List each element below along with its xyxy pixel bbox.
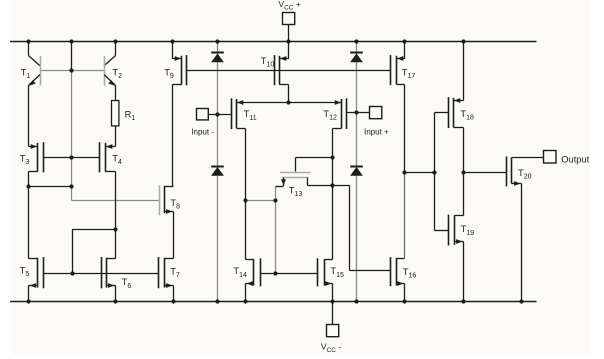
wire T14 source to rail — [245, 284, 247, 302]
svg-text:Input +: Input + — [364, 128, 389, 137]
transistor T14 — [233, 258, 260, 286]
transistor T16 — [391, 257, 417, 286]
junction (71.5,70.5) — [69, 68, 73, 72]
diode D4 — [350, 167, 363, 176]
wire T9 source to T8 drain — [172, 85, 174, 187]
transistor T17 — [391, 42, 416, 86]
transistor T3 — [20, 142, 72, 172]
transistor T13 — [276, 158, 333, 199]
junction (288.5,102.5) — [286, 100, 290, 104]
svg-text:Output: Output — [561, 154, 589, 164]
wire T4 source down — [115, 172, 117, 230]
wire T16 gate route — [333, 186, 391, 271]
junction bottom rail x=173.5 — [171, 299, 175, 303]
wire T16 source to rail — [404, 284, 406, 302]
wire T13 source to T14/T15 gate (gray) — [275, 187, 277, 274]
wire T5 source to rail — [28, 286, 30, 302]
terminal Input+ — [347, 107, 390, 137]
terminal VCC- — [321, 302, 341, 354]
transistor T6 — [102, 257, 132, 290]
transistor T1 — [21, 42, 41, 147]
junction (332.5,157.5) — [330, 155, 334, 159]
wire T3 drain to gray net — [29, 172, 72, 187]
wire left diode string (gray) — [217, 42, 219, 302]
junction top rail x=217.5 — [215, 39, 219, 43]
junction (434.5,172.5) — [432, 170, 436, 174]
wire T11 source to T13 source (gray) — [246, 200, 276, 202]
junction top rail x=172.5 — [170, 39, 174, 43]
transistor T19 — [435, 215, 475, 246]
junction (71.5,157.5) — [69, 155, 73, 159]
wire T5-T7 gate line — [44, 273, 159, 275]
junction bottom rail x=463.5 — [461, 299, 465, 303]
wire T1-T2 base net (gray) — [41, 70, 105, 72]
junction (72.0,273.5) — [70, 271, 74, 275]
junction bottom rail x=28.5 — [26, 299, 30, 303]
wire diff drain bus — [237, 102, 342, 104]
junction (404.5,172.5) — [402, 170, 406, 174]
terminal VCC+ — [278, 0, 300, 41]
terminal Output — [512, 151, 590, 165]
junction top rail x=71.5 — [69, 39, 73, 43]
wire T6 drain up — [115, 230, 117, 259]
wire T7 source to rail — [173, 286, 175, 302]
junction top rail x=463.5 — [461, 39, 465, 43]
diode D2 — [211, 167, 224, 176]
svg-text:Input -: Input - — [191, 128, 214, 137]
junction top rail x=288.5 — [286, 39, 290, 43]
transistor T20 — [507, 157, 532, 187]
junction bottom rail x=404.5 — [402, 299, 406, 303]
wire T4 source to T5 gate line — [72, 230, 116, 274]
junction (275.5,273.5) — [273, 271, 277, 275]
wire T12 source down — [332, 129, 334, 260]
wire T15 source to rail — [332, 284, 334, 302]
transistor T15 — [318, 258, 345, 286]
transistor T11 — [232, 98, 257, 129]
wire T17 source to bias node — [404, 85, 406, 173]
junction bottom rail x=356.5 — [354, 299, 358, 303]
junction bottom rail x=115.5 — [113, 299, 117, 303]
terminal Input- — [191, 109, 231, 137]
wire VCC- bottom rail — [10, 301, 537, 303]
junction bottom rail x=332.5 — [330, 299, 334, 303]
junction top rail x=404.5 — [402, 39, 406, 43]
junction top rail x=115.5 — [113, 39, 117, 43]
wire T18/T19 gate drop — [434, 113, 436, 231]
junction (71.5,186.5) — [69, 184, 73, 188]
diode D1 — [211, 53, 224, 63]
resistor R1 — [112, 101, 136, 147]
junction (28.5,186.5) — [26, 184, 30, 188]
transistor T4 — [72, 142, 123, 172]
wire T14-T15 gate line — [261, 273, 318, 275]
transistor T12 — [323, 98, 346, 129]
wire bias node to T16 drain — [404, 173, 406, 259]
transistor T18 — [435, 42, 475, 129]
transistor T9 — [164, 42, 186, 86]
wire T3 node down to T5 — [28, 187, 30, 259]
transistor T7 — [159, 257, 180, 288]
junction (463.5,172.5) — [461, 170, 465, 174]
junction (356.5,113.0) — [354, 110, 358, 114]
wire T10 source down — [288, 85, 290, 103]
wire bias to T20 gate — [464, 172, 507, 174]
junction bottom rail x=521.5 — [519, 299, 523, 303]
wire T9-T10-T17 gate line — [187, 70, 391, 72]
wire T8 source to T7 drain — [173, 212, 175, 259]
junction top rail x=28.5 — [26, 39, 30, 43]
wire T20 source to rail — [521, 184, 523, 302]
junction (275.5,200.5) — [273, 198, 277, 202]
transistor T5 — [20, 257, 44, 288]
junction (332.5,185.5) — [330, 183, 334, 187]
transistor T8 — [160, 185, 181, 215]
junction bottom rail x=245.5 — [243, 299, 247, 303]
junction (217.5,114.5) — [215, 112, 219, 116]
diode D3 — [350, 53, 363, 63]
junction (115.5,229.5) — [113, 227, 117, 231]
transistor T10 — [261, 42, 289, 86]
transistor T2 — [104, 42, 122, 102]
junction (245.5,200.5) — [243, 198, 247, 202]
wire bias node — [405, 172, 435, 174]
wire T3/T4 gate to T8 gate net (gray) — [72, 71, 160, 201]
wire T19 source to rail — [463, 242, 465, 302]
wire T11 source down — [245, 129, 247, 260]
wire T6 source to rail — [115, 286, 117, 302]
node base drop — [71, 42, 73, 71]
wire T18 source to T19 drain — [463, 128, 465, 216]
junction bottom rail x=217.5 — [215, 299, 219, 303]
wire right diode string (gray) — [356, 42, 358, 302]
wire VCC+ top rail — [10, 41, 537, 43]
junction top rail x=356.5 — [354, 39, 358, 43]
